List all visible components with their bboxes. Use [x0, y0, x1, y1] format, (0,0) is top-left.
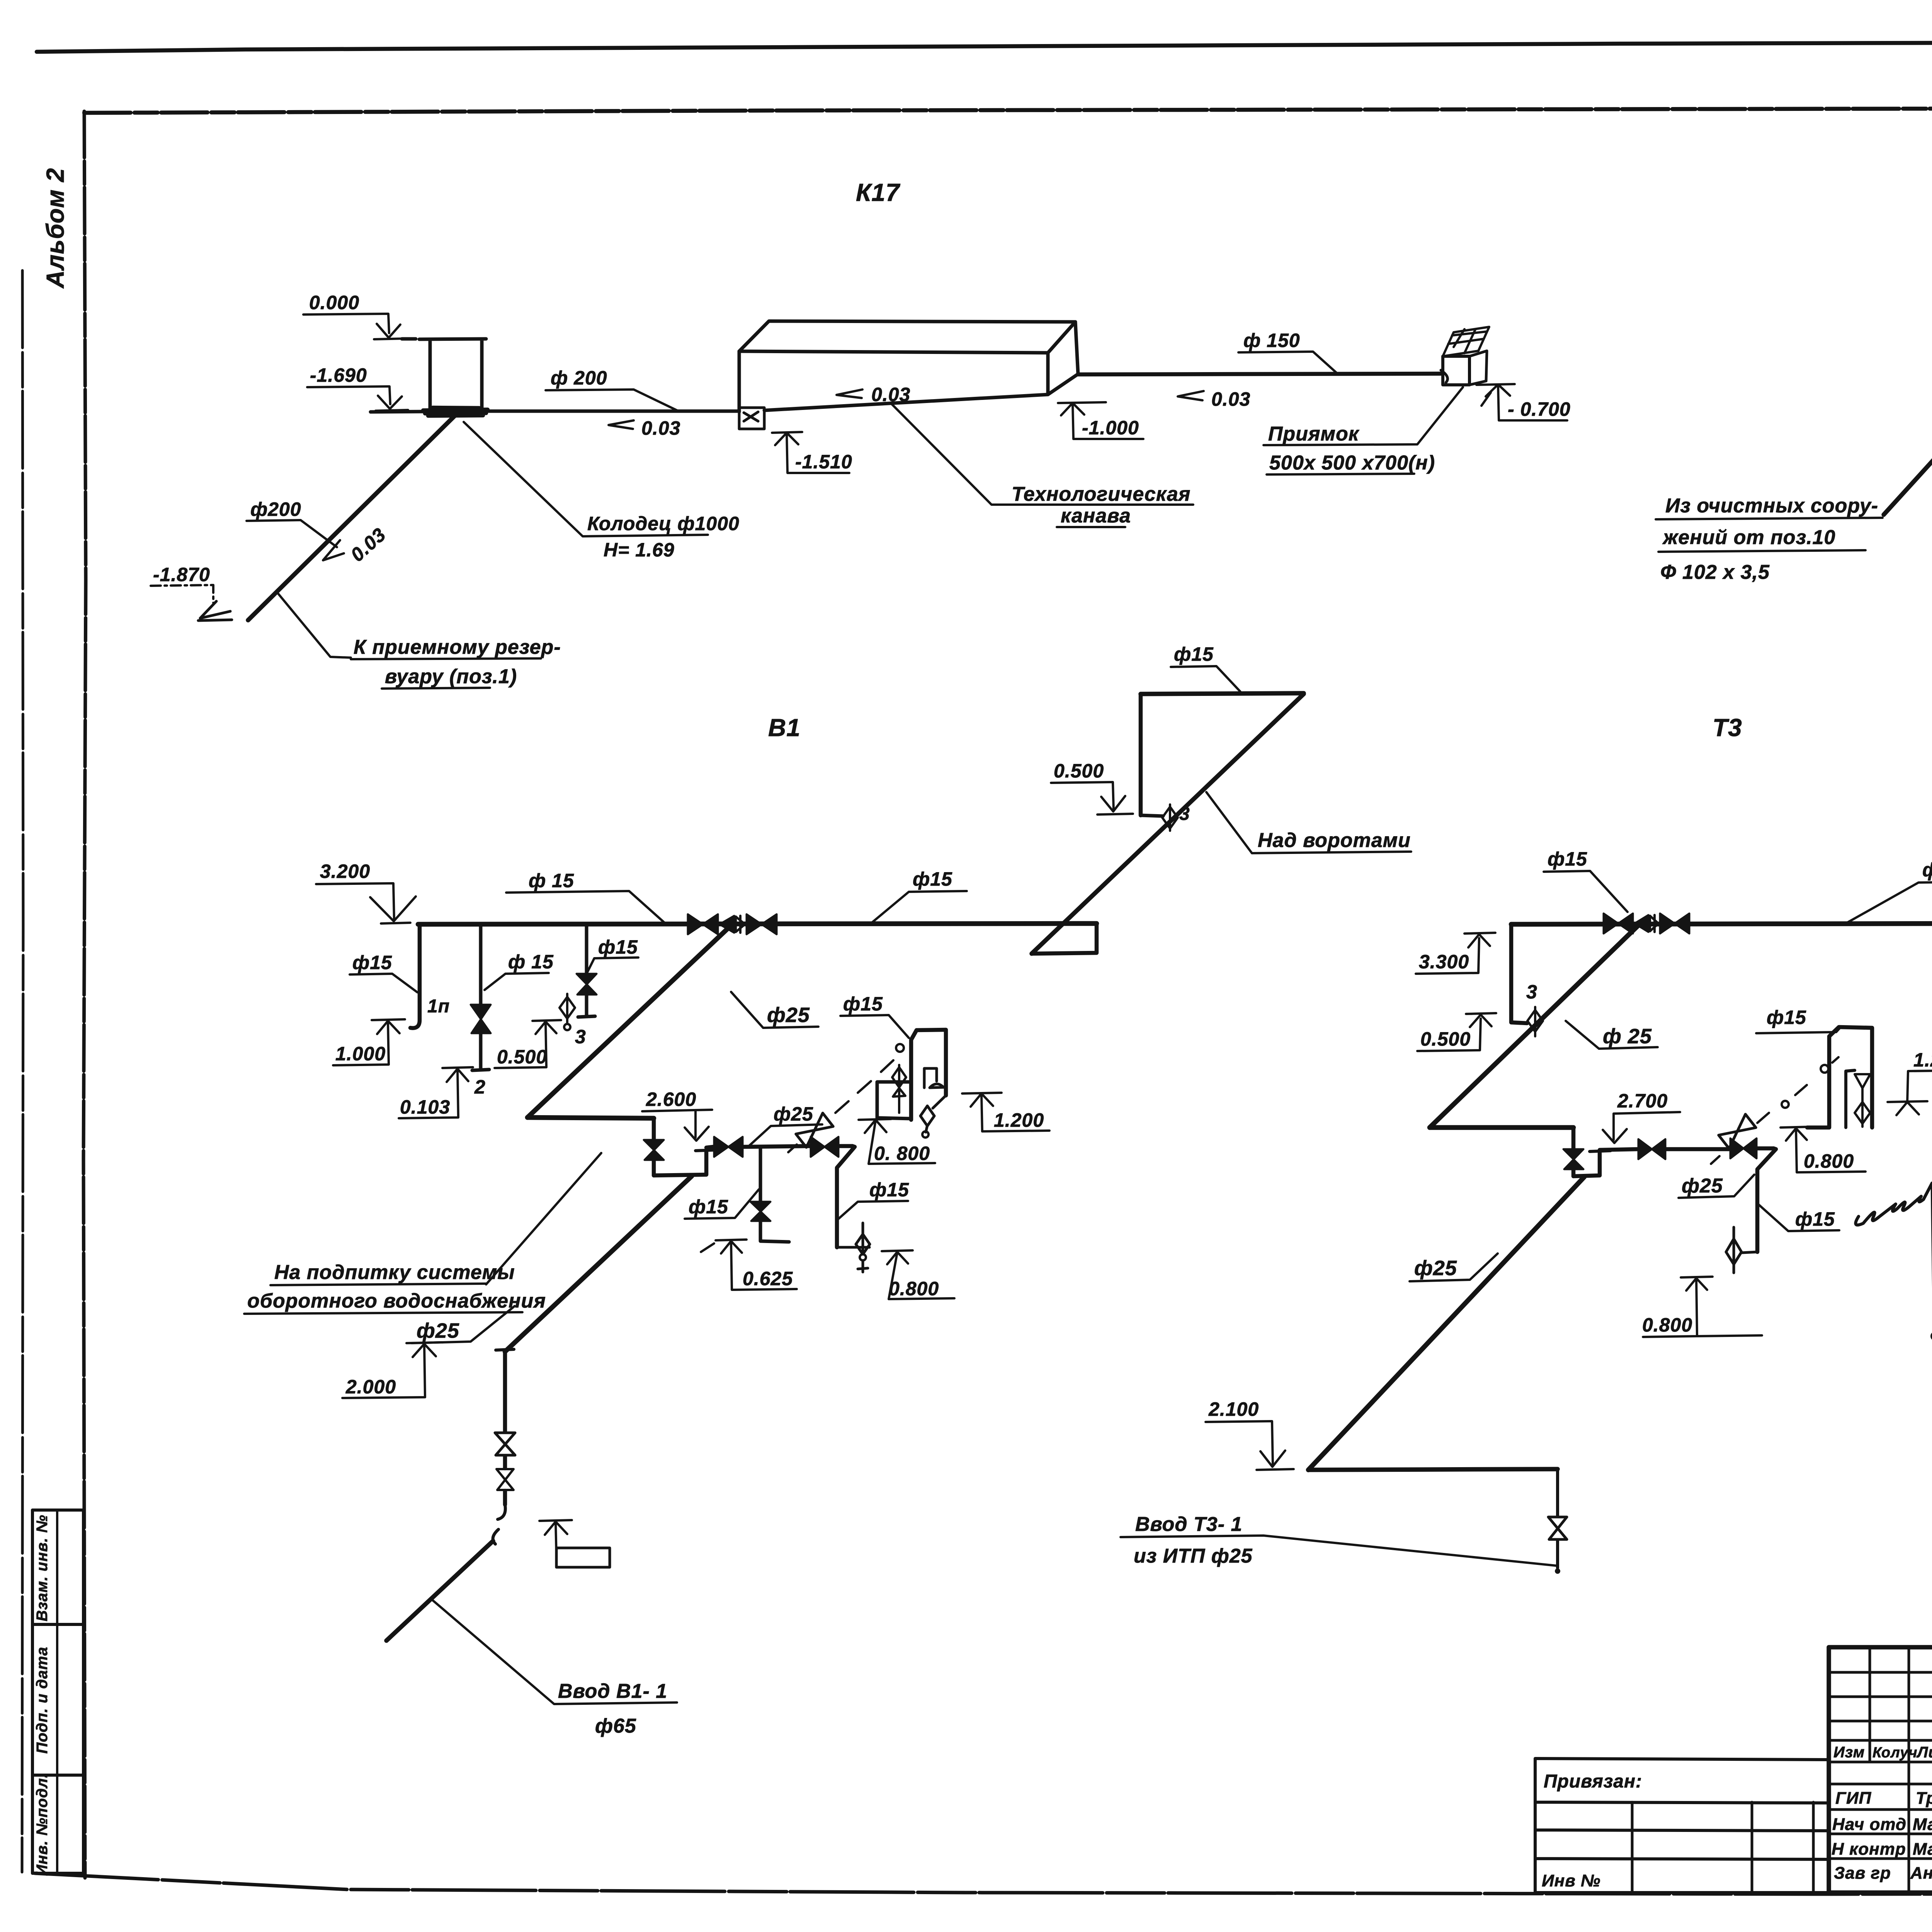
- underline vuaru: [382, 688, 490, 689]
- T3 half valve on main pipe: [1634, 915, 1648, 932]
- T3 assembly valve B: [1730, 1138, 1757, 1158]
- svg-text:Из очистных соору-: Из очистных соору-: [1665, 495, 1878, 517]
- level mark 0.000 leader: [303, 314, 389, 333]
- level mark -1.870 leader: [151, 585, 213, 603]
- svg-text:3: 3: [1526, 981, 1537, 1003]
- level mark 0.800 T3 bottom leader: [1643, 1279, 1762, 1337]
- underline iz ochistnykh: [1656, 518, 1883, 519]
- svg-text:-1.510: -1.510: [795, 451, 852, 473]
- svg-text:ф25: ф25: [1414, 1257, 1457, 1280]
- svg-text:Н= 1.69: Н= 1.69: [604, 539, 675, 561]
- sheet outer left edge line: [22, 270, 23, 1872]
- B1 equipment box: [556, 1548, 610, 1567]
- B1 Z-riser label leader: [838, 1201, 908, 1219]
- svg-text:ф15: ф15: [1548, 848, 1587, 870]
- svg-text:2.700: 2.700: [1617, 1090, 1668, 1112]
- T3 diagonal 2 F25 to vvod: [1308, 1177, 1584, 1470]
- B1 dashed branch line: [788, 1060, 893, 1152]
- svg-text:ф15: ф15: [843, 993, 883, 1015]
- svg-text:500х 500 х700(н): 500х 500 х700(н): [1269, 452, 1435, 474]
- underline priyamok size: [1267, 474, 1414, 474]
- svg-text:Н контр: Н контр: [1832, 1840, 1906, 1859]
- B1 assembly valve B: [811, 1137, 838, 1157]
- B1 label F25 between valves leader: [749, 1124, 822, 1146]
- pipe label F200 upper leader: [546, 389, 677, 410]
- B1 riser 1 label leader: [350, 974, 417, 992]
- B1 drain cock circle: [564, 1024, 570, 1030]
- level mark 1.200 leader: [981, 1094, 1049, 1131]
- svg-text:ф15: ф15: [689, 1196, 728, 1218]
- B1 sprinkler label leader: [840, 1015, 909, 1038]
- svg-text:ф200: ф200: [250, 498, 301, 520]
- T3 left riser drain diamond: [1527, 1007, 1543, 1036]
- trench box right side face: [1048, 322, 1078, 395]
- underline kanava: [1057, 526, 1125, 528]
- T3 dashed branch rotated valve: [1719, 1114, 1756, 1149]
- level mark -1.000 arrow: [1058, 402, 1106, 415]
- B1 assembly flange tick: [696, 1150, 717, 1151]
- B1 portal top pipe: [1141, 693, 1304, 694]
- level mark 0.103 leader: [399, 1070, 458, 1118]
- slope arrow on diagonal: [323, 540, 344, 560]
- slope arrow under pipe: [609, 420, 634, 429]
- svg-text:ф 150: ф 150: [1243, 330, 1300, 351]
- svg-text:0. 800: 0. 800: [874, 1143, 930, 1164]
- svg-text:1.200: 1.200: [1913, 1049, 1932, 1071]
- svg-text:ф25: ф25: [1682, 1175, 1723, 1197]
- svg-text:ф 15: ф 15: [529, 870, 574, 891]
- level mark -0.700 arrow: [1476, 384, 1515, 406]
- level mark 0.625 arrow: [701, 1240, 747, 1253]
- underline nad vorotami B1 + leader: [1206, 792, 1411, 853]
- level mark 1.200 T3 arrow: [1888, 1101, 1927, 1115]
- B1 portal drain diamond on diagonal: [1162, 804, 1178, 831]
- svg-text:2.100: 2.100: [1208, 1398, 1259, 1420]
- B1 lower diagonal F25 to vvod: [505, 1176, 692, 1352]
- level mark 2.100 leader: [1206, 1421, 1273, 1464]
- svg-text:2.600: 2.600: [646, 1088, 696, 1110]
- B1 main pipe Z-kink: [1032, 923, 1097, 954]
- pipe label F150 leader: [1238, 352, 1336, 372]
- svg-text:-1.870: -1.870: [153, 564, 210, 585]
- T3 assembly horizontal upper: [1430, 1125, 1573, 1130]
- svg-text:Т3: Т3: [1713, 714, 1742, 742]
- B1 riser 3 valve bowtie: [577, 974, 597, 995]
- T3 assembly left down leg: [1571, 1128, 1576, 1176]
- underline vvod B1-1 + leader: [432, 1600, 677, 1704]
- T3 dashed branch line: [1711, 1057, 1838, 1164]
- svg-text:ф25: ф25: [774, 1103, 813, 1125]
- level mark 0.500 T3 leader: [1417, 1019, 1481, 1051]
- pit priyamok right face: [1469, 351, 1487, 385]
- svg-text:В1: В1: [768, 714, 801, 742]
- underline line2: [244, 1312, 522, 1314]
- B1 assembly valve A: [714, 1137, 743, 1157]
- svg-text:0.000: 0.000: [309, 292, 359, 313]
- level mark -1.510 leader: [787, 434, 849, 473]
- B1 half valve on main pipe: [719, 916, 734, 933]
- underline k priemnomu: [351, 658, 541, 659]
- B1 unlabeled level mark with box: [539, 1520, 572, 1556]
- B1 riser 2 valve bowtie: [471, 1005, 491, 1033]
- B1 sprinkler right drop with diamond: [920, 1095, 946, 1132]
- svg-text:0.03: 0.03: [871, 384, 910, 405]
- B1 vvod riser top flange: [496, 1349, 514, 1350]
- T3 sprinkler label leader: [1756, 1028, 1840, 1033]
- level mark 2.600 arrow: [685, 1127, 709, 1141]
- svg-text:0.800: 0.800: [889, 1278, 939, 1299]
- T3 drop label leader: [1759, 1205, 1839, 1231]
- left margin stamp row divider 1: [32, 1623, 83, 1626]
- B1 vvod fitting 2: [497, 1469, 514, 1490]
- B1 center drop label leader: [685, 1189, 759, 1219]
- level mark 0.500 T3 arrow: [1466, 1013, 1496, 1027]
- T3 dashed branch circle 2: [1821, 1065, 1828, 1073]
- trench slope arrow: [837, 389, 862, 398]
- svg-text:3: 3: [575, 1026, 586, 1048]
- T3 pipe label F15 mid-top leader: [1847, 882, 1932, 923]
- B1 portal left vertical: [1139, 694, 1143, 815]
- B1 main horizontal pipe: [418, 923, 1097, 924]
- B1 vvod lower diagonal: [386, 1541, 493, 1641]
- T3 dashed branch circle 1: [1782, 1101, 1789, 1108]
- svg-text:Зав гр: Зав гр: [1834, 1864, 1891, 1883]
- B1 drain cock diamond near riser 3: [560, 994, 575, 1023]
- svg-text:На подпитку системы: На подпитку системы: [274, 1261, 515, 1284]
- B1 center drop valve: [750, 1202, 770, 1221]
- B1 assembly left down leg: [652, 1118, 656, 1175]
- svg-text:0.103: 0.103: [400, 1096, 450, 1118]
- T3 diagonal 2 label leader: [1410, 1253, 1498, 1281]
- T3 main horizontal pipe: [1511, 923, 1932, 924]
- pit priyamok box front: [1443, 356, 1469, 385]
- B1 assembly horizontal upper: [527, 1117, 654, 1118]
- B1 upper diagonal F25 from tee: [527, 925, 731, 1117]
- trench box top face: [739, 321, 1075, 353]
- well bottom hatch: [423, 408, 488, 416]
- title block left table verticals: [1870, 1647, 1932, 1893]
- svg-text:Марионков: Марионков: [1913, 1815, 1932, 1834]
- svg-text:0.500: 0.500: [497, 1046, 547, 1068]
- K3 break squiggle: [1855, 1183, 1932, 1225]
- slope arrow pit pipe: [1178, 391, 1204, 400]
- level mark 3.200 arrow: [370, 896, 416, 923]
- level mark 0.500 portal leader: [1051, 782, 1114, 810]
- level mark 0.500 portal arrow: [1097, 796, 1133, 815]
- well Kolodec walls: [402, 339, 486, 409]
- left margin stamp middle divider: [56, 1510, 58, 1873]
- T3 vvod horizontal pipe: [1308, 1469, 1558, 1470]
- T3 sprinkler block outline: [1807, 1027, 1872, 1128]
- T3 vvod valve: [1548, 1517, 1567, 1539]
- svg-text:Технологическая: Технологическая: [1012, 483, 1190, 505]
- svg-text:ф25: ф25: [417, 1319, 459, 1342]
- B1 sprinkler drop circle: [922, 1131, 929, 1138]
- svg-text:2.000: 2.000: [345, 1376, 396, 1398]
- svg-text:3.200: 3.200: [320, 861, 370, 882]
- B1 riser 2: [472, 924, 489, 1070]
- level mark -1.510 arrow: [772, 432, 802, 445]
- svg-text:Привязан:: Привязан:: [1544, 1771, 1642, 1792]
- level mark 3.300 arrow: [1464, 933, 1495, 947]
- svg-text:Ф 102 х 3,5: Ф 102 х 3,5: [1660, 561, 1770, 583]
- B1 sprinkler inner shower: [924, 1068, 944, 1088]
- B1 sprinkler left box: [877, 1082, 911, 1119]
- T3 assembly left leg valve: [1563, 1149, 1583, 1169]
- svg-text:3.300: 3.300: [1419, 951, 1469, 973]
- svg-text:ф15: ф15: [1795, 1208, 1835, 1230]
- B1 assembly right Z-kink: [837, 1146, 855, 1247]
- K17 outfall diagonal pipe: [248, 414, 456, 620]
- svg-text:оборотного водоснабжения: оборотного водоснабжения: [247, 1290, 546, 1312]
- B1 small fitting on main pipe: [736, 916, 745, 933]
- inner frame bottom line: [35, 1873, 1932, 1894]
- T3 assembly valve A: [1638, 1139, 1665, 1159]
- T3 assembly bottom U: [1573, 1153, 1600, 1176]
- level mark 2.000 leader: [342, 1345, 425, 1398]
- T3 vvod end dot: [1555, 1568, 1560, 1574]
- underline priyamok + leader to pit: [1264, 387, 1463, 445]
- svg-text:- 0.700: - 0.700: [1508, 398, 1571, 420]
- underline na podpitku: [270, 1284, 486, 1285]
- svg-text:0.800: 0.800: [1642, 1314, 1692, 1336]
- T3 left stub with diamond: [1726, 1227, 1757, 1273]
- T3 sprinkler funnel triangle: [1855, 1074, 1870, 1101]
- svg-text:1п: 1п: [427, 996, 450, 1017]
- level mark 0.500 riser3 leader: [495, 1022, 546, 1068]
- left margin stamp row divider 2: [32, 1774, 83, 1777]
- svg-text:Взам. инв. №: Взам. инв. №: [34, 1515, 51, 1621]
- level mark 0.800 T3 bottom arrow: [1681, 1277, 1713, 1291]
- T3 left riser: [1511, 924, 1527, 1023]
- svg-text:0.500: 0.500: [1054, 760, 1104, 782]
- svg-text:Инв №: Инв №: [1542, 1871, 1600, 1890]
- B1 center tee drop: [760, 1147, 789, 1242]
- outfall arrowhead: [198, 601, 232, 621]
- pipe trench to pit: [1078, 374, 1441, 374]
- svg-text:ф15: ф15: [1174, 643, 1214, 665]
- B1 vvod hook: [493, 1505, 505, 1544]
- svg-text:Колодец ф1000: Колодец ф1000: [587, 513, 740, 534]
- svg-text:из ИТП ф25: из ИТП ф25: [1134, 1545, 1253, 1567]
- pit priyamok top face with grate: [1443, 327, 1489, 356]
- svg-text:1.200: 1.200: [994, 1109, 1044, 1131]
- svg-text:ф 25: ф 25: [1603, 1025, 1652, 1048]
- level mark -1.000 leader: [1073, 404, 1143, 439]
- title block left table rows upper: [1829, 1672, 1932, 1762]
- T3 valve 1 on main pipe: [1604, 913, 1633, 934]
- svg-text:ф65: ф65: [595, 1715, 636, 1737]
- svg-text:ф 200: ф 200: [551, 367, 607, 389]
- level mark 1.000 leader: [333, 1022, 389, 1065]
- svg-text:ф 15: ф 15: [508, 951, 554, 973]
- B1 dashed branch rotated valve: [796, 1113, 833, 1148]
- inner frame top line: [84, 107, 1932, 113]
- B1 valve 1 on main pipe: [688, 914, 718, 934]
- B1 valve 2 on main pipe: [747, 914, 777, 934]
- underline kolodec + leader to well: [464, 422, 708, 536]
- svg-text:2: 2: [474, 1076, 486, 1098]
- svg-text:0.800: 0.800: [1804, 1150, 1854, 1172]
- level mark 2.600 leader: [642, 1110, 712, 1138]
- B1 riser 3: [578, 924, 595, 1017]
- level mark 1.200 T3 leader: [1907, 1070, 1932, 1103]
- svg-text:К17: К17: [856, 179, 901, 206]
- B1 vvod valve 1: [495, 1433, 515, 1455]
- T3 sprinkler diamond: [1855, 1100, 1870, 1127]
- svg-text:Альбом 2: Альбом 2: [41, 168, 69, 289]
- B1 riser 2 label leader: [485, 973, 549, 990]
- title block left table rows lower: [1829, 1784, 1932, 1859]
- svg-text:К приемному резер-: К приемному резер-: [354, 636, 561, 658]
- svg-text:0.03: 0.03: [1211, 388, 1250, 410]
- svg-text:вуару (поз.1): вуару (поз.1): [385, 665, 517, 688]
- svg-text:Инв. №подл.: Инв. №подл.: [34, 1773, 51, 1876]
- svg-text:ф15: ф15: [913, 868, 952, 890]
- T3 diagonal 1 label leader: [1566, 1021, 1658, 1049]
- svg-text:Марионков: Марионков: [1913, 1840, 1932, 1859]
- B1 portal bottom stub: [1141, 815, 1163, 816]
- svg-text:Подп. и дата: Подп. и дата: [34, 1647, 51, 1754]
- B1 sprinkler block outline: [911, 1030, 946, 1120]
- sheet outer top edge line: [37, 41, 1932, 52]
- level mark 0.500 riser3 arrow: [532, 1020, 561, 1034]
- svg-text:Приямок: Приямок: [1268, 423, 1360, 445]
- level mark 0.103 arrow: [442, 1067, 473, 1082]
- K3 riser circle bottom: [1932, 1333, 1932, 1340]
- B1 riser 3 label leader: [587, 957, 638, 972]
- B1 lower diagonal label leader: [412, 1306, 515, 1343]
- level mark 2.700 leader: [1614, 1112, 1680, 1140]
- svg-text:1.000: 1.000: [335, 1043, 386, 1065]
- svg-text:Трушин.: Трушин.: [1916, 1789, 1932, 1808]
- level mark 0.800 upper leader: [859, 1119, 935, 1164]
- level mark 0.000 arrow: [374, 324, 406, 339]
- privyazan box: [1535, 1759, 1829, 1893]
- level mark 3.300 leader: [1416, 938, 1479, 974]
- leader to tekhnologicheskaya kanava: [892, 404, 1193, 505]
- level mark 2.100 arrow: [1257, 1451, 1294, 1470]
- leader k priemnomu: [277, 593, 351, 658]
- svg-text:-1.690: -1.690: [310, 364, 367, 386]
- level mark -0.700 leader: [1498, 385, 1567, 420]
- T3 sprinkler inner corner: [1846, 1070, 1855, 1128]
- svg-text:Нач отд: Нач отд: [1832, 1815, 1906, 1834]
- T3 small fitting on main pipe: [1650, 915, 1658, 932]
- svg-text:Антоненково: Антоненково: [1910, 1864, 1932, 1883]
- B1 assembly left leg valve: [644, 1140, 664, 1160]
- svg-text:ф15: ф15: [598, 936, 638, 958]
- T3 pipe label F15 left-top leader: [1544, 871, 1628, 912]
- svg-text:ф15: ф15: [869, 1179, 909, 1201]
- T3 assembly right Z-kink: [1757, 1148, 1776, 1252]
- B1 vvod riser vertical: [503, 1352, 507, 1505]
- svg-text:ф25: ф25: [767, 1003, 810, 1027]
- svg-text:-1.000: -1.000: [1082, 417, 1139, 439]
- level mark 3.200 leader: [316, 883, 394, 920]
- left margin stamp column box: [32, 1510, 83, 1873]
- B1 right stub diamond circle: [860, 1254, 866, 1260]
- svg-text:Изм: Изм: [1833, 1744, 1865, 1761]
- level mark 0.625 leader: [731, 1242, 797, 1290]
- T3 assembly flange tick: [1590, 1151, 1611, 1151]
- T3 diagonal 1 F25: [1430, 924, 1639, 1128]
- svg-text:Колуч: Колуч: [1872, 1745, 1918, 1761]
- underline vvod T3-1: [1121, 1536, 1556, 1566]
- underline line2: [1658, 550, 1866, 552]
- level mark 1.200 arrow: [962, 1093, 1002, 1107]
- privyazan box verticals: [1632, 1802, 1813, 1893]
- svg-text:канава: канава: [1061, 505, 1131, 527]
- svg-text:жений от поз.10: жений от поз.10: [1662, 526, 1835, 549]
- level mark 0.800 lower right leader: [882, 1250, 954, 1299]
- B1 right stub with diamond: [837, 1223, 870, 1272]
- level mark 0.800 T3 sprinkler leader: [1796, 1129, 1866, 1172]
- svg-text:Лист: Лист: [1916, 1744, 1932, 1761]
- svg-text:0.03: 0.03: [641, 417, 680, 439]
- svg-text:3: 3: [1179, 804, 1190, 824]
- level mark 0.800 T3 sprinkler arrow: [1781, 1127, 1812, 1141]
- svg-text:ГИП: ГИП: [1835, 1789, 1872, 1808]
- pipe label F200 lower leader: [247, 520, 337, 547]
- T3 valve 2 on main pipe: [1660, 913, 1689, 934]
- ground line well to trench: [371, 411, 739, 412]
- B1 assembly lower horizontal: [706, 1146, 852, 1148]
- leader na podpitku: [486, 1153, 601, 1284]
- B1 pipe label F15 right-top leader: [1171, 666, 1240, 692]
- svg-text:Ввод Т3- 1: Ввод Т3- 1: [1135, 1513, 1242, 1536]
- T3 label F25 leader: [1679, 1175, 1754, 1198]
- slope label 0.03 on diagonal: [346, 524, 390, 566]
- B1 pipe label F15 mid-top leader: [872, 891, 967, 923]
- inner frame left vertical: [83, 111, 86, 1878]
- svg-text:0.500: 0.500: [1420, 1028, 1471, 1050]
- B1 portal diagonal over gates: [1032, 694, 1304, 954]
- title block outer box: [1829, 1647, 1932, 1893]
- T3 vvod right drop: [1556, 1469, 1559, 1568]
- svg-text:ф15: ф15: [1767, 1007, 1806, 1028]
- pit inlet curve: [1441, 370, 1447, 383]
- level mark 2.000 arrow: [406, 1342, 443, 1357]
- level mark -1.690 leader: [307, 386, 390, 404]
- trench box front face: [739, 351, 1048, 412]
- B1 branch diamond column: [892, 1065, 906, 1113]
- B1 pipe label F15 left-top leader: [506, 891, 665, 923]
- level mark -1.690 arrow: [376, 396, 408, 411]
- B1 dashed branch circle 1: [896, 1044, 904, 1052]
- B1 diagonal label F25 leader: [731, 992, 818, 1028]
- B10 riser diagonal pipe: [1884, 371, 1932, 515]
- svg-text:Ввод В1- 1: Ввод В1- 1: [558, 1680, 667, 1702]
- B1 assembly bottom U: [654, 1151, 706, 1175]
- B1 riser 1: [410, 924, 420, 1028]
- svg-text:Над воротами: Над воротами: [1258, 829, 1411, 852]
- level mark 1.000 arrow: [372, 1019, 405, 1034]
- svg-text:ф 15: ф 15: [1922, 859, 1932, 881]
- svg-text:ф15: ф15: [352, 952, 392, 973]
- trench box left step: [739, 408, 764, 429]
- svg-text:0.625: 0.625: [743, 1268, 793, 1289]
- level mark 2.700 arrow: [1603, 1129, 1627, 1143]
- T3 assembly lower horizontal: [1600, 1148, 1774, 1150]
